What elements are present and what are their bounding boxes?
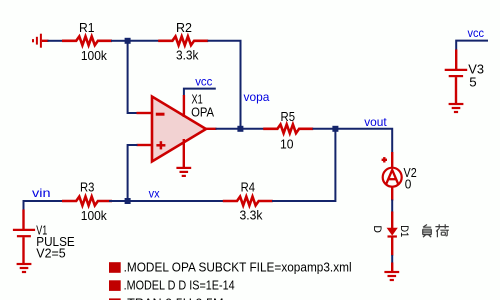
load ground symbol	[384, 272, 399, 280]
svg-text:D: D	[371, 225, 383, 233]
battery V3 short plate	[449, 75, 463, 77]
svg-text:5: 5	[469, 75, 476, 89]
battery V3 long plate	[445, 69, 468, 71]
V2 ammeter bottom pin stub	[391, 187, 393, 200]
wire V2 to diode D1	[391, 200, 393, 213]
V2 ammeter top pin stub	[391, 152, 393, 167]
directive marker 1	[109, 262, 121, 273]
wire R1 to node J1	[111, 40, 126, 42]
svg-text:.MODEL D D IS=1E-14: .MODEL D D IS=1E-14	[124, 279, 235, 293]
wire vcc to V3	[456, 41, 488, 50]
svg-text:vcc: vcc	[195, 74, 212, 88]
svg-text:0: 0	[405, 177, 412, 191]
op-amp output pin stub	[205, 128, 217, 130]
svg-text:vin: vin	[32, 186, 51, 200]
wire R3 to J3	[109, 200, 126, 202]
wire input gnd to R1	[48, 40, 63, 42]
svg-text:100k: 100k	[81, 209, 108, 223]
svg-text:.MODEL OPA SUBCKT FILE=xopamp3: .MODEL OPA SUBCKT FILE=xopamp3.xml	[124, 261, 352, 275]
diode D1 cathode lead	[391, 237, 393, 256]
V3 bottom lead	[455, 77, 457, 103]
diode D1 anode lead	[391, 212, 393, 229]
svg-text:100k: 100k	[81, 49, 108, 63]
svg-text:3.3k: 3.3k	[240, 209, 264, 223]
op-amp ground symbol	[176, 168, 191, 176]
minus sign inside op-amp	[156, 113, 165, 116]
wire J1 down to op-amp inverting input	[128, 43, 138, 113]
source V1 top lead	[22, 210, 24, 231]
V3 top lead	[455, 50, 457, 70]
resistor R1	[62, 36, 112, 45]
directive marker 2	[109, 280, 121, 291]
op-amp ground pin stub	[183, 139, 185, 168]
plus sign inside op-amp	[156, 141, 165, 149]
wire J1 to R2	[129, 40, 161, 42]
svg-text:R3: R3	[80, 181, 94, 195]
plus sign of V2	[382, 157, 387, 162]
svg-text:vcc: vcc	[468, 26, 485, 40]
wire J2 to R5	[242, 128, 265, 130]
wire R4 up to vout node J4	[272, 131, 335, 201]
resistor R4	[223, 197, 273, 206]
junction J4 (vout node)	[332, 126, 338, 132]
resistor R3	[62, 197, 112, 206]
battery V1 short plate	[17, 235, 31, 237]
junction J1 (inverting input node)	[125, 38, 131, 44]
wire R2 to output node J2 (feedback)	[208, 41, 241, 127]
op-amp vcc pin stub	[183, 95, 185, 117]
junction J2 (vopa node)	[237, 126, 243, 132]
wire J3 up to op-amp non-inverting input	[128, 145, 138, 199]
svg-text:10: 10	[280, 138, 294, 152]
resistor R2	[158, 36, 208, 45]
V1 bottom lead	[22, 237, 24, 263]
svg-text:R4: R4	[241, 181, 255, 195]
svg-text:vout: vout	[364, 115, 387, 129]
V3 ground symbol	[449, 104, 464, 112]
load ground lead	[391, 263, 393, 272]
input ground (AC ground at left of R1)	[33, 34, 49, 48]
directive marker 3 (clipped)	[109, 298, 121, 300]
vcc net label wire above op-amp	[184, 89, 216, 96]
svg-text:.TRAN 0.5U 0.5M: .TRAN 0.5U 0.5M	[124, 297, 224, 300]
svg-text:R5: R5	[281, 110, 296, 124]
letter A inside ammeter	[386, 170, 398, 184]
svg-text:R1: R1	[79, 21, 95, 35]
op-amp non-inverting input pin stub	[137, 144, 153, 146]
svg-text:OPA: OPA	[191, 105, 215, 119]
wire vin: V1 up and right to R3	[24, 201, 66, 210]
svg-text:vopa: vopa	[244, 90, 270, 104]
ammeter V2 circle	[383, 168, 402, 187]
V1 ground symbol	[17, 264, 32, 272]
wire R5 to J4	[313, 128, 335, 130]
op-amp inverting input pin stub	[137, 112, 153, 114]
svg-text:vx: vx	[149, 186, 160, 200]
diode D1 triangle	[387, 228, 398, 236]
svg-text:R2: R2	[176, 21, 192, 35]
battery V1 long plate	[13, 229, 35, 231]
junction J3 (vx node)	[125, 198, 131, 204]
svg-text:3.3k: 3.3k	[176, 49, 199, 63]
svg-text:V2=5: V2=5	[36, 247, 65, 261]
diode D1 cathode bar	[388, 235, 397, 237]
op-amp U1 triangle	[152, 97, 206, 162]
resistor R5	[263, 124, 313, 133]
svg-text:D1: D1	[398, 225, 410, 237]
label 負荷 (load, kanji drawn as strokes)	[423, 224, 449, 237]
wire diode to ground	[391, 255, 393, 263]
wire J4 to V2 ammeter	[338, 129, 393, 153]
wire J3 to R4	[129, 200, 225, 202]
wire op-amp output to J2	[216, 128, 239, 130]
